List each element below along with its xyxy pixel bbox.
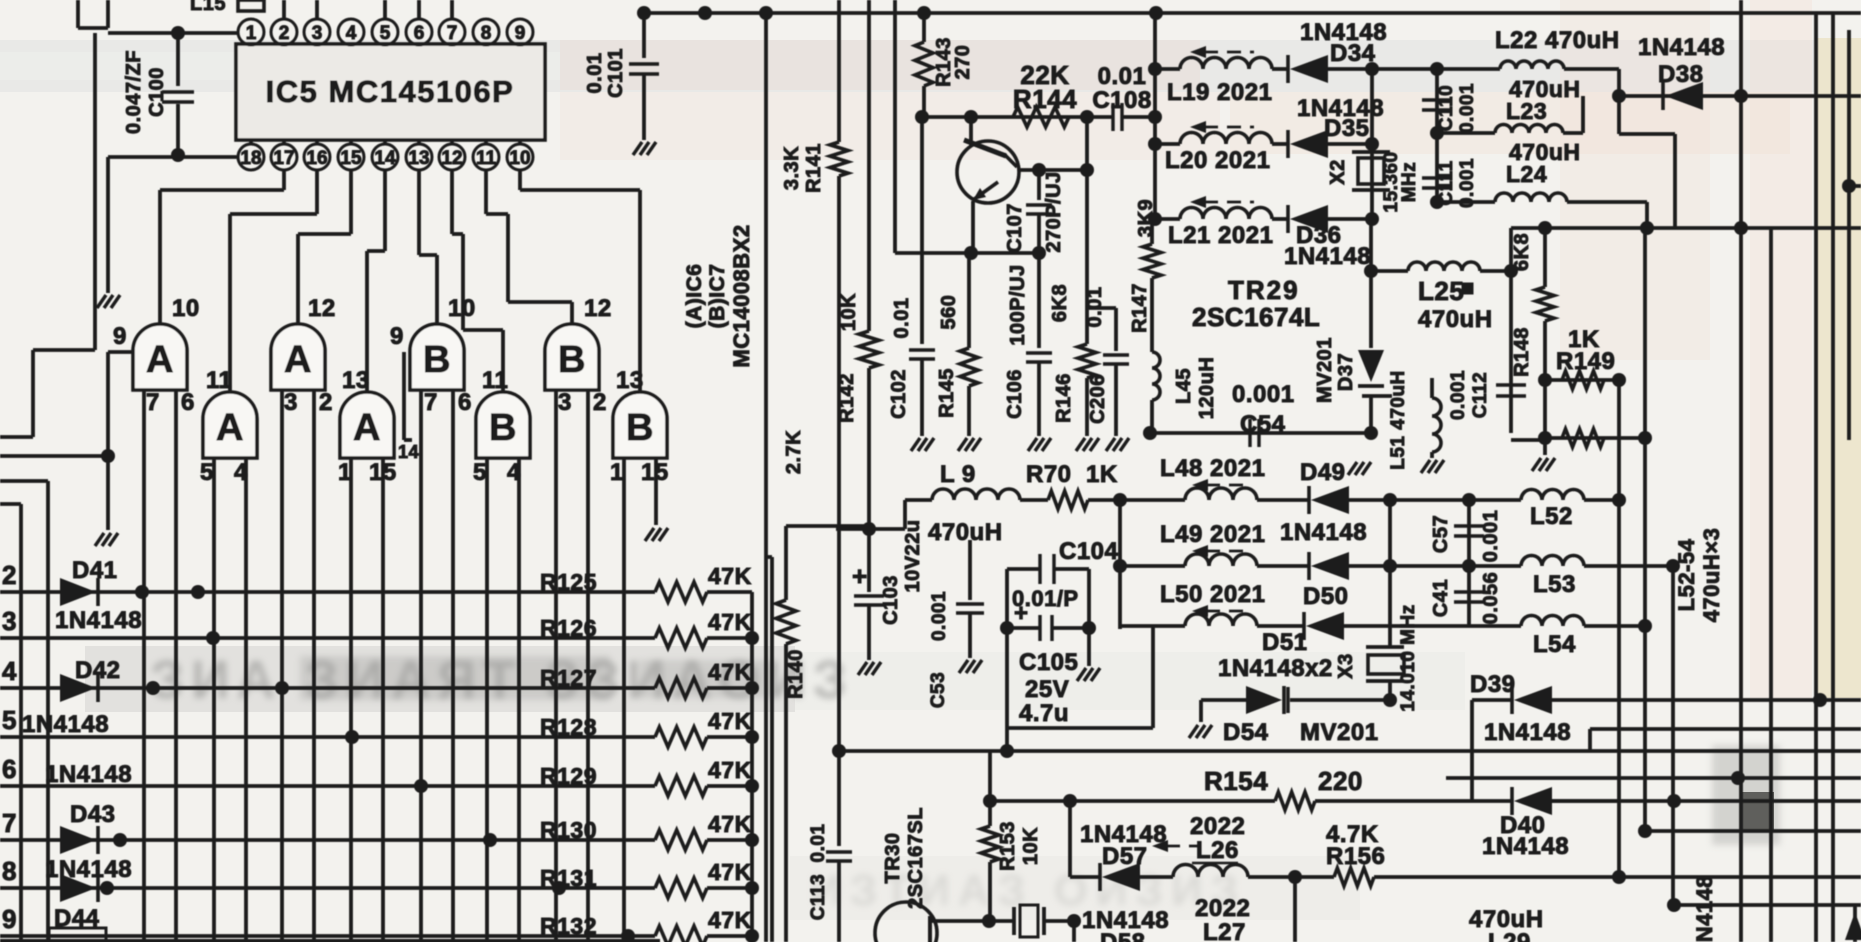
svg-text:B: B <box>626 407 654 449</box>
svg-text:0.001: 0.001 <box>1232 381 1295 408</box>
svg-text:4: 4 <box>346 23 357 44</box>
svg-text:18: 18 <box>240 148 261 169</box>
svg-text:47K: 47K <box>708 859 752 885</box>
svg-text:L21 2021: L21 2021 <box>1168 222 1273 249</box>
svg-text:R128: R128 <box>540 714 597 740</box>
svg-text:1N4148: 1N4148 <box>22 711 109 738</box>
svg-text:X2: X2 <box>1327 159 1349 184</box>
svg-text:13: 13 <box>408 148 429 169</box>
svg-text:1: 1 <box>610 459 624 486</box>
svg-text:IC5 MC145106P: IC5 MC145106P <box>266 74 515 109</box>
svg-text:3K9: 3K9 <box>1135 199 1157 237</box>
svg-text:6: 6 <box>458 389 472 416</box>
svg-text:R142: R142 <box>836 373 858 423</box>
svg-text:6K8: 6K8 <box>1511 233 1533 271</box>
svg-text:R129: R129 <box>540 763 597 789</box>
svg-text:14: 14 <box>374 148 396 169</box>
svg-text:47K: 47K <box>708 757 752 783</box>
svg-text:1: 1 <box>338 459 352 486</box>
svg-text:7: 7 <box>2 808 17 838</box>
svg-text:R148: R148 <box>1511 327 1533 377</box>
svg-text:A: A <box>353 407 381 449</box>
svg-text:1N4148: 1N4148 <box>1482 833 1569 860</box>
svg-text:L52: L52 <box>1530 503 1573 530</box>
svg-text:13: 13 <box>342 367 370 394</box>
svg-text:6: 6 <box>2 754 17 784</box>
svg-text:R149: R149 <box>1556 348 1615 375</box>
svg-text:C110: C110 <box>1436 85 1457 131</box>
svg-text:L50 2021: L50 2021 <box>1160 581 1265 608</box>
svg-text:D54: D54 <box>1223 719 1269 746</box>
svg-text:15: 15 <box>369 459 397 486</box>
svg-text:R146: R146 <box>1053 373 1075 423</box>
svg-text:2: 2 <box>2 560 17 590</box>
svg-text:270: 270 <box>952 45 974 80</box>
svg-text:ИЗТИАЗ ОИЗИЗ: ИЗТИАЗ ОИЗИЗ <box>810 866 1246 915</box>
svg-text:L51 470uH: L51 470uH <box>1388 370 1409 470</box>
svg-text:47K: 47K <box>708 609 752 635</box>
svg-text:0.01/P: 0.01/P <box>1012 586 1079 611</box>
svg-text:R140: R140 <box>785 649 807 699</box>
svg-text:L19 2021: L19 2021 <box>1167 79 1272 106</box>
svg-text:2: 2 <box>279 23 290 44</box>
svg-text:D41: D41 <box>72 557 118 584</box>
svg-text:25V: 25V <box>1025 676 1069 703</box>
svg-text:0.001: 0.001 <box>1448 370 1469 420</box>
svg-text:R145: R145 <box>936 368 958 418</box>
svg-text:R130: R130 <box>540 817 597 843</box>
svg-text:C53: C53 <box>928 672 949 708</box>
svg-text:C206: C206 <box>1087 374 1109 424</box>
svg-text:11: 11 <box>206 367 232 394</box>
svg-text:6: 6 <box>181 389 195 416</box>
svg-text:D35: D35 <box>1324 115 1370 142</box>
svg-text:R141: R141 <box>803 143 825 193</box>
svg-text:5: 5 <box>200 459 214 486</box>
svg-text:D42: D42 <box>75 657 121 684</box>
svg-text:11: 11 <box>476 148 497 169</box>
svg-text:C108: C108 <box>1092 87 1151 114</box>
svg-text:10: 10 <box>509 148 530 169</box>
svg-text:6: 6 <box>414 23 425 44</box>
svg-text:B: B <box>558 339 586 381</box>
svg-text:L20 2021: L20 2021 <box>1165 147 1270 174</box>
svg-text:0.01: 0.01 <box>584 53 606 94</box>
svg-text:470uH: 470uH <box>928 519 1003 546</box>
svg-text:5: 5 <box>2 705 17 735</box>
svg-text:0.001: 0.001 <box>1480 510 1502 563</box>
svg-text:9: 9 <box>390 323 404 350</box>
svg-text:12: 12 <box>441 148 462 169</box>
svg-text:L 9: L 9 <box>940 461 976 488</box>
svg-text:MHz: MHz <box>1399 162 1420 203</box>
svg-text:L15: L15 <box>190 0 226 15</box>
svg-text:5: 5 <box>473 459 487 486</box>
svg-text:A: A <box>216 407 244 449</box>
svg-text:D58: D58 <box>1100 929 1146 942</box>
svg-text:D49: D49 <box>1300 459 1346 486</box>
svg-text:L26: L26 <box>1196 837 1239 864</box>
svg-text:4: 4 <box>234 459 248 486</box>
svg-text:(A)IC6: (A)IC6 <box>683 264 706 329</box>
svg-text:L29: L29 <box>1488 929 1531 942</box>
svg-text:16: 16 <box>306 148 327 169</box>
svg-text:C102: C102 <box>888 369 910 419</box>
svg-text:MV201: MV201 <box>1314 337 1336 403</box>
svg-text:L25: L25 <box>1418 276 1464 306</box>
svg-text:2: 2 <box>593 389 607 416</box>
svg-text:47K: 47K <box>708 907 752 933</box>
svg-text:9: 9 <box>515 23 526 44</box>
svg-text:C104: C104 <box>1059 538 1119 565</box>
svg-text:560: 560 <box>938 295 960 330</box>
svg-text:1N4148: 1N4148 <box>55 607 142 634</box>
svg-text:D37: D37 <box>1335 353 1357 391</box>
svg-text:C107: C107 <box>1004 203 1026 253</box>
svg-text:2022: 2022 <box>1190 813 1245 840</box>
svg-text:270P/UJ: 270P/UJ <box>1043 171 1065 252</box>
svg-text:1N4148: 1N4148 <box>1284 243 1371 270</box>
svg-text:3.3K: 3.3K <box>781 146 803 190</box>
svg-text:17: 17 <box>273 148 294 169</box>
svg-text:D51: D51 <box>1262 629 1308 656</box>
svg-text:0.01: 0.01 <box>808 824 829 863</box>
svg-text:L23: L23 <box>1506 98 1547 124</box>
svg-text:R131: R131 <box>540 865 597 891</box>
svg-text:15: 15 <box>340 148 362 169</box>
svg-text:1N4148: 1N4148 <box>45 761 132 788</box>
svg-text:C103: C103 <box>880 575 902 625</box>
svg-text:13: 13 <box>616 367 644 394</box>
svg-text:2.7K: 2.7K <box>783 430 805 474</box>
svg-text:9: 9 <box>113 323 127 350</box>
svg-text:MC14008BX2: MC14008BX2 <box>729 224 754 367</box>
svg-text:1N4148: 1N4148 <box>1692 875 1717 942</box>
svg-text:C105: C105 <box>1019 649 1078 676</box>
svg-text:47K: 47K <box>708 708 752 734</box>
svg-text:D34: D34 <box>1330 40 1376 67</box>
svg-text:3: 3 <box>312 23 323 44</box>
svg-text:4: 4 <box>507 459 521 486</box>
svg-text:2SC167SL: 2SC167SL <box>905 807 927 909</box>
svg-text:12: 12 <box>308 295 336 322</box>
svg-text:120uH: 120uH <box>1196 357 1218 420</box>
svg-text:R156: R156 <box>1326 843 1385 870</box>
svg-text:R132: R132 <box>540 913 597 939</box>
svg-text:C111: C111 <box>1436 160 1457 205</box>
svg-text:C112: C112 <box>1470 372 1491 418</box>
svg-text:0.01: 0.01 <box>1084 287 1106 328</box>
svg-text:47K: 47K <box>708 563 752 589</box>
svg-text:7: 7 <box>424 389 438 416</box>
svg-text:2022: 2022 <box>1195 895 1250 922</box>
svg-text:0.01: 0.01 <box>1098 63 1147 90</box>
svg-text:3: 3 <box>2 606 17 636</box>
svg-text:D43: D43 <box>70 801 116 828</box>
svg-text:R153: R153 <box>997 821 1019 871</box>
svg-text:D39: D39 <box>1470 671 1516 698</box>
svg-text:1N4148: 1N4148 <box>1638 34 1725 61</box>
svg-text:A: A <box>146 339 174 381</box>
svg-text:B: B <box>489 407 517 449</box>
svg-text:10K: 10K <box>838 293 860 331</box>
svg-text:8: 8 <box>2 856 17 886</box>
svg-text:C100: C100 <box>146 67 168 117</box>
svg-text:10: 10 <box>172 295 200 322</box>
svg-text:2SC1674L: 2SC1674L <box>1192 302 1320 332</box>
svg-text:B: B <box>423 339 451 381</box>
svg-text:47K: 47K <box>708 811 752 837</box>
svg-text:0.047/ZF: 0.047/ZF <box>123 50 145 134</box>
svg-text:MV201: MV201 <box>1300 719 1379 746</box>
svg-text:7: 7 <box>146 389 160 416</box>
svg-text:1K: 1K <box>1086 461 1118 488</box>
svg-text:R125: R125 <box>540 569 597 595</box>
svg-text:9: 9 <box>2 904 17 934</box>
svg-text:A: A <box>284 339 312 381</box>
svg-text:2: 2 <box>319 389 333 416</box>
svg-text:R147: R147 <box>1129 283 1151 333</box>
svg-text:+: + <box>852 561 868 591</box>
svg-text:L22 470uH: L22 470uH <box>1495 27 1620 54</box>
svg-text:L49 2021: L49 2021 <box>1160 521 1265 548</box>
svg-text:L45: L45 <box>1173 368 1195 404</box>
svg-text:6K8: 6K8 <box>1049 284 1071 322</box>
svg-text:L52-54: L52-54 <box>1674 538 1699 611</box>
svg-text:D50: D50 <box>1303 583 1349 610</box>
svg-text:3: 3 <box>558 389 572 416</box>
svg-text:TR29: TR29 <box>1228 275 1300 305</box>
svg-text:10V22u: 10V22u <box>902 519 924 592</box>
svg-text:L27: L27 <box>1203 919 1246 942</box>
svg-text:7: 7 <box>447 23 458 44</box>
svg-text:0.001: 0.001 <box>1457 83 1478 133</box>
svg-text:12: 12 <box>584 295 612 322</box>
svg-text:14.010 MHz: 14.010 MHz <box>1398 604 1419 711</box>
svg-text:100P/UJ: 100P/UJ <box>1007 264 1029 345</box>
svg-text:47K: 47K <box>708 659 752 685</box>
svg-text:15: 15 <box>641 459 669 486</box>
svg-text:5: 5 <box>380 23 391 44</box>
svg-text:R154: R154 <box>1204 766 1268 796</box>
svg-text:1N4148: 1N4148 <box>1484 719 1571 746</box>
svg-text:1N4148: 1N4148 <box>45 856 132 883</box>
svg-text:D57: D57 <box>1102 843 1148 870</box>
svg-text:1: 1 <box>246 23 257 44</box>
svg-text:1N4148x2: 1N4148x2 <box>1218 655 1333 682</box>
svg-text:L24: L24 <box>1506 161 1547 187</box>
svg-text:470uH×3: 470uH×3 <box>1699 528 1724 623</box>
svg-text:R144: R144 <box>1013 84 1077 114</box>
svg-text:470uH: 470uH <box>1418 306 1493 333</box>
svg-text:C106: C106 <box>1004 369 1026 419</box>
svg-text:TR30: TR30 <box>882 833 904 884</box>
svg-text:R126: R126 <box>540 615 597 641</box>
svg-text:10: 10 <box>448 295 476 322</box>
svg-text:X3: X3 <box>1335 653 1357 678</box>
svg-text:L54: L54 <box>1533 631 1576 658</box>
svg-text:C101: C101 <box>605 48 627 98</box>
svg-text:C41: C41 <box>1430 579 1452 617</box>
svg-text:C113: C113 <box>808 874 829 920</box>
svg-text:1N4148: 1N4148 <box>1280 519 1367 546</box>
svg-text:0.01: 0.01 <box>891 298 913 339</box>
svg-text:4.7u: 4.7u <box>1019 700 1069 727</box>
svg-text:R70: R70 <box>1026 461 1072 488</box>
svg-text:L48 2021: L48 2021 <box>1160 455 1265 482</box>
svg-text:C54: C54 <box>1240 411 1286 438</box>
svg-text:(B)IC7: (B)IC7 <box>706 264 729 329</box>
svg-text:D38: D38 <box>1658 61 1704 88</box>
svg-text:14: 14 <box>398 442 419 462</box>
svg-text:3: 3 <box>284 389 298 416</box>
svg-text:4: 4 <box>2 656 17 686</box>
svg-text:8: 8 <box>481 23 492 44</box>
svg-text:R127: R127 <box>540 665 597 691</box>
svg-text:220: 220 <box>1318 766 1363 796</box>
svg-text:0.001: 0.001 <box>929 591 950 641</box>
svg-text:C57: C57 <box>1430 515 1452 553</box>
svg-text:L53: L53 <box>1533 571 1576 598</box>
svg-text:11: 11 <box>482 367 508 394</box>
svg-text:10K: 10K <box>1020 827 1042 865</box>
svg-text:0.056: 0.056 <box>1480 572 1502 625</box>
